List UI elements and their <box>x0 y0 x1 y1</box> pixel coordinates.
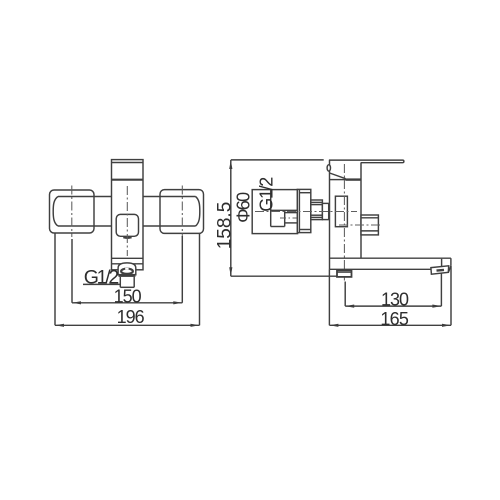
knob axis centerline <box>339 224 382 226</box>
svg-text:G1/2: G1/2 <box>256 177 276 212</box>
union small port bottom <box>285 222 298 224</box>
outlet neck dark band <box>119 274 136 277</box>
wire: right arm top <box>143 196 196 198</box>
svg-text:150: 150 <box>114 286 142 306</box>
center line left plate <box>71 186 73 238</box>
center line right plate <box>181 186 183 238</box>
body vertical centerline <box>343 164 345 281</box>
wall pipe axis (eccentric) <box>280 217 301 219</box>
extension line 165 right <box>450 266 452 325</box>
extension line 150 left <box>71 239 73 303</box>
pipe axis centerline <box>255 211 357 213</box>
body bottom edge <box>112 257 144 259</box>
svg-text:G1/2: G1/2 <box>84 267 120 289</box>
wire: left arm top <box>58 196 112 198</box>
svg-text:158.5: 158.5 <box>214 202 235 250</box>
svg-text:196: 196 <box>117 307 145 327</box>
escutcheon plate left <box>50 190 95 233</box>
body top seam <box>330 179 346 181</box>
handle cap inner line <box>112 162 144 164</box>
lever pivot ellipse <box>327 165 330 171</box>
dimension line 150 <box>72 302 182 304</box>
leader underline for G1/2 front <box>83 283 121 285</box>
aerator screen mark <box>437 269 445 272</box>
dim 158.5 vertical line <box>230 160 232 276</box>
spout top <box>330 257 451 259</box>
flange line <box>112 263 144 265</box>
aerator box <box>431 266 449 274</box>
lever bar <box>329 160 404 163</box>
dimension line 130 <box>345 305 441 307</box>
spacer cylinder <box>322 203 328 219</box>
right arm end cap arc <box>196 197 200 227</box>
svg-text:Φ60: Φ60 <box>233 192 253 223</box>
escutcheon box side <box>252 190 297 234</box>
spout bottom <box>330 268 432 270</box>
union small port top <box>285 212 298 214</box>
center line body front <box>126 186 128 256</box>
extension line top (y160) <box>231 159 324 161</box>
wire: right arm bottom <box>143 225 196 227</box>
escutcheon divider <box>270 190 272 227</box>
wire: left arm bottom <box>58 225 112 227</box>
extension line 196 right <box>199 234 201 326</box>
union inner line top <box>271 209 298 211</box>
escutcheon plate right <box>160 190 204 234</box>
extension line 130 right <box>440 273 442 306</box>
outlet thread inner ellipse (thick rim) <box>121 269 133 274</box>
extension line 130 left <box>344 282 346 307</box>
svg-text:165: 165 <box>380 309 409 329</box>
union inner line bottom <box>271 226 285 228</box>
aerator insert line <box>441 259 443 267</box>
thread <box>311 200 323 220</box>
extension line 196 left <box>54 234 56 326</box>
side knob <box>361 215 378 235</box>
pipe flange boss on body <box>335 196 347 227</box>
faucet body front <box>112 160 144 270</box>
extension line 165 left <box>328 269 330 325</box>
outlet neck sides <box>119 277 121 287</box>
dimension line 196 <box>55 324 200 326</box>
cartridge seam (thick) <box>112 179 144 181</box>
left arm end cap arc <box>53 197 58 227</box>
lever skirt diagonal <box>330 173 346 179</box>
body left edge <box>329 160 331 269</box>
bottom outlet box <box>337 270 352 277</box>
rim gap highlight <box>125 268 128 270</box>
body top seam (thick) <box>346 178 362 180</box>
neck bottom <box>120 286 134 288</box>
union inner vertical <box>284 210 286 226</box>
extension line 150 right <box>181 236 183 303</box>
svg-text:130: 130 <box>381 290 409 310</box>
dimension line 165 <box>329 324 451 326</box>
extension line bottom (y276) <box>231 275 340 277</box>
body right edge <box>360 162 362 258</box>
diverter knob front (rounded square) <box>116 214 138 236</box>
knob bottom shadow arc <box>123 236 131 239</box>
spout tip slant <box>448 266 451 272</box>
spout right end <box>450 258 452 266</box>
outlet thread cap (rounded top) <box>118 263 136 276</box>
nut <box>297 189 311 232</box>
